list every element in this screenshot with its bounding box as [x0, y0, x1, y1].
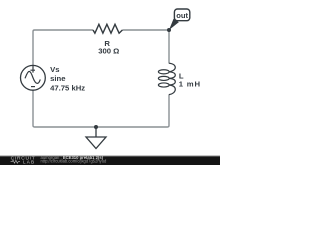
wire from inductor top up to node out [168, 30, 170, 64]
source label Vs [50, 65, 59, 74]
inductor L coil [158, 63, 175, 94]
svg-text:sine: sine [50, 74, 66, 83]
wire from ground node to bottom-right corner up to inductor bottom [96, 94, 169, 127]
source value 47.75 kHz [50, 84, 85, 93]
junction node out dot [167, 28, 171, 32]
svg-text:nttp://circuitlab.com/c/jkgd7g: nttp://circuitlab.com/c/jkgd7g52hyud [41, 159, 108, 164]
svg-text:47.75 kHz: 47.75 kHz [50, 84, 85, 93]
inductor label L [179, 71, 184, 80]
inductor value 1 mH [179, 79, 201, 88]
ground [86, 127, 106, 149]
resistor value 300 ohm [98, 46, 119, 55]
resistor label R [104, 39, 110, 48]
watermark bar [0, 155, 220, 165]
resistor R [93, 24, 122, 33]
watermark logo CIRCUIT [11, 156, 36, 162]
wire from resistor left lead to top-left corner down to source top [33, 30, 93, 66]
wire from resistor right lead to node out [122, 29, 169, 31]
watermark logo LAB [23, 159, 35, 164]
svg-text:out: out [176, 11, 188, 20]
watermark logo resistor zigzag [11, 160, 20, 163]
svg-text:LAB: LAB [23, 159, 35, 164]
source type label sine [50, 74, 66, 83]
wire from source bottom to bottom-left corner to ground node [33, 90, 96, 127]
voltage source Vs (sine) [21, 65, 46, 90]
svg-text:300 Ω: 300 Ω [98, 46, 119, 55]
junction ground node dot [94, 125, 98, 129]
svg-text:1 mH: 1 mH [179, 79, 201, 88]
node out flag [169, 9, 190, 30]
watermark text line 2 [41, 159, 108, 164]
watermark text line 1 [41, 155, 104, 160]
svg-text:Vs: Vs [50, 65, 59, 74]
